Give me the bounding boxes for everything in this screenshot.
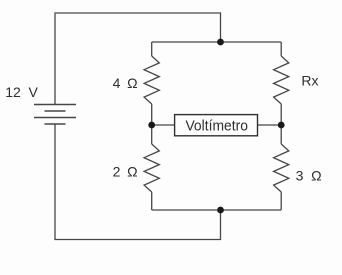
wire top from battery to bridge [55,13,221,105]
wire left branch upper lead [151,42,153,56]
wire bridge bottom rail [152,209,282,211]
resistor 2 ohm [144,144,159,192]
svg-text:4 Ω: 4 Ω [113,75,138,91]
wire voltmeter right lead [258,124,282,126]
svg-text:Rx: Rx [301,73,318,89]
resistor 3 ohm [274,144,289,192]
svg-text:2 Ω: 2 Ω [113,164,138,180]
wire bridge top rail [152,41,282,43]
node junction top [217,39,224,46]
node junction left (voltmeter -) [148,122,155,129]
node junction right (voltmeter +) [278,122,285,129]
svg-text:Voltímetro: Voltímetro [185,117,248,134]
wire right branch lower lead [280,192,282,210]
svg-text:3 Ω: 3 Ω [296,167,322,183]
wire bottom from bridge to battery [55,124,221,240]
voltmeter box [175,115,258,136]
wire right branch upper lead [280,42,282,56]
resistor 4 ohm [144,56,159,104]
resistor Rx [274,56,289,104]
wire right branch middle [280,104,282,144]
svg-text:12 V: 12 V [5,84,38,100]
wire voltmeter left lead [152,124,175,126]
battery B1 12V [34,105,76,125]
node junction bottom [217,207,224,214]
wire left branch middle [151,104,153,144]
wire left branch lower lead [151,192,153,210]
